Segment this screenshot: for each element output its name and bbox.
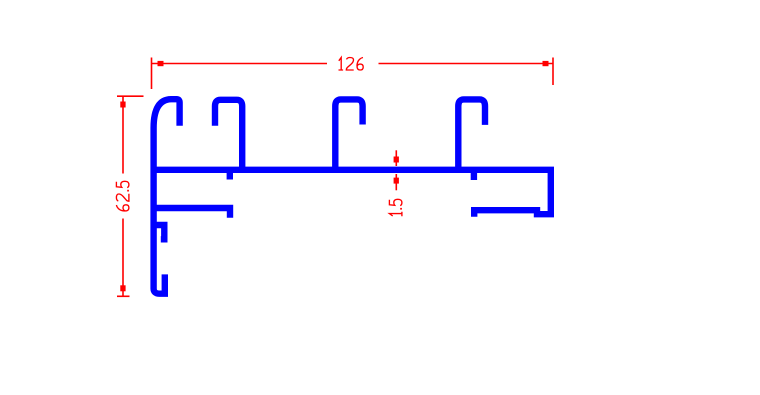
dim text 62.5 bbox=[116, 181, 129, 211]
hook 2 (opens left) bbox=[215, 100, 242, 169]
dim 126 arrow right bbox=[543, 61, 549, 66]
dim 126 arrow left bbox=[158, 61, 164, 66]
screw port hook lower left bbox=[153, 225, 165, 239]
tooth below bar left bbox=[227, 171, 233, 180]
dim 1.5 line upper bbox=[395, 150, 397, 166]
dim 126 extension line right bbox=[552, 58, 554, 86]
dim 1.5 line lower bbox=[395, 174, 397, 190]
profile left wall with top hook and bottom hook bbox=[154, 99, 180, 294]
dim 62.5 extension line top bbox=[117, 95, 144, 97]
profile main bar, right wall and bottom-right flange bbox=[151, 170, 551, 217]
hook 3 (opens right) bbox=[335, 99, 362, 169]
dim 62.5 extension line bottom bbox=[117, 295, 130, 297]
dim 1.5 arrow bottom bbox=[394, 178, 399, 184]
dim 1.5 arrow top bbox=[394, 157, 399, 163]
hook 4 (opens right) bbox=[458, 99, 485, 169]
dim 126 extension line left bbox=[151, 58, 153, 90]
dim 126 line bbox=[152, 63, 554, 65]
dim text 1.5 bbox=[389, 199, 402, 216]
dim 62.5 arrow top bbox=[120, 102, 125, 108]
dim text 126 bbox=[339, 58, 364, 71]
dim 62.5 line bbox=[122, 96, 124, 296]
tooth below bar right bbox=[471, 171, 477, 180]
dim 62.5 arrow bottom bbox=[120, 285, 125, 291]
left flange with end tooth bbox=[151, 208, 230, 218]
